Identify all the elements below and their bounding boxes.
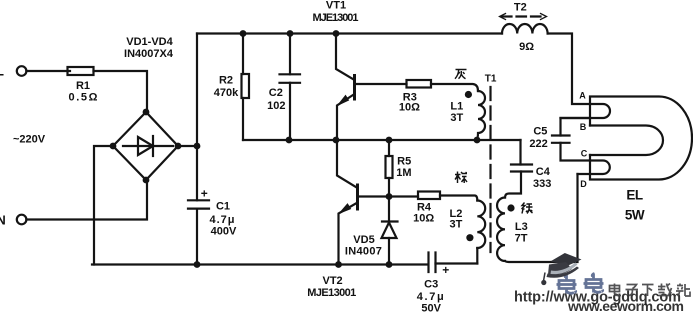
svg-text:222: 222 [529,138,547,150]
mid rail [243,139,521,141]
winding L2 [477,201,485,249]
svg-text:4.7μ: 4.7μ [210,214,235,226]
svg-text:EL: EL [626,188,643,203]
svg-text:B: B [580,122,587,132]
watermark cap gray swoosh [551,263,578,275]
watermark logo bug char 2 [584,274,604,293]
svg-text:1M: 1M [396,167,411,179]
lamp bottom filament [578,161,610,175]
VT2 emitter [339,203,358,265]
resistor R2 [242,74,250,98]
svg-text:470k: 470k [214,87,239,99]
watermark cap body [548,262,572,275]
wire R4 to L2 [440,196,477,201]
CJK glyph 绿 (green wire label) [522,203,533,214]
C5 bottom lead to C [561,143,591,161]
capacitor C5 plates [552,136,570,143]
VT2 emitter arrow [340,204,351,213]
resistor R3 [407,80,432,88]
capacitor C2 top lead [289,34,291,75]
wire bridge right to +V node [178,145,197,147]
capacitor C4 plates [511,165,532,172]
watermark text 电子下载站 [610,284,691,297]
svg-text:www.eeworm.com: www.eeworm.com [567,298,684,313]
watermark graduation cap board [551,253,582,266]
svg-text:+: + [201,187,208,201]
+V vertical upper [196,34,198,201]
winding L3 [497,198,505,262]
capacitor C1 plates [188,200,209,208]
CJK glyph 棕 (brown wire label) [455,172,467,184]
svg-text:C4: C4 [536,166,551,178]
terminal N [17,215,27,225]
lamp tube outline top leg [590,97,692,180]
VT1 emitter arrow [338,96,349,106]
VT1 base lead [355,83,407,85]
T2 core arrow right [541,14,547,20]
bridge internal diode line [123,145,173,147]
watermark [514,253,690,313]
svg-text:7T: 7T [515,233,528,245]
svg-text:L: L [0,64,4,79]
svg-text:R2: R2 [219,75,233,87]
svg-text:R1: R1 [76,80,90,92]
svg-text:400V: 400V [211,226,237,238]
C4 bottom lead to L3 [505,172,521,198]
glyph 电 [610,284,622,296]
bridge internal diode cathode bar [152,136,154,156]
C2 bottom lead [289,83,291,140]
VT2 base lead [358,195,389,197]
bridge rectifier VD1-VD4 diamond [113,112,178,180]
svg-text:C2: C2 [269,87,283,99]
svg-text:VT2: VT2 [323,275,343,287]
L2 bottom lead [476,248,478,264]
wire T2 to lamp A [548,34,590,105]
VT1 bar [353,76,356,100]
wire R3 to L1 [431,84,478,91]
svg-text:50V: 50V [421,303,441,313]
VD5 cathode bar [382,220,398,222]
top rail [197,32,502,34]
svg-text:L3: L3 [515,221,528,233]
svg-text:0.5Ω: 0.5Ω [69,92,98,104]
svg-text:MJE13001: MJE13001 [307,287,356,299]
svg-text:10Ω: 10Ω [413,213,434,225]
C1 bottom lead [196,209,198,265]
phase dot L3 [507,204,514,211]
svg-text:IN4007X4: IN4007X4 [124,48,174,60]
watermark tassel [544,273,546,282]
svg-text:C5: C5 [533,126,547,138]
diode VD5 top lead [388,197,390,223]
terminal L [17,66,27,76]
L3 bottom wire to D [505,174,578,262]
glyph 载 [658,284,672,296]
svg-text:IN4007: IN4007 [345,246,382,258]
phase dot L1 [465,91,472,98]
svg-text:R5: R5 [397,156,411,168]
phase dot L2 [466,234,473,241]
T2 core dashed line [502,15,544,17]
svg-text:102: 102 [267,100,285,112]
wire L to R1 [26,70,70,72]
svg-text:C1: C1 [216,201,230,213]
wire base node to R4 [389,195,419,197]
svg-text:10Ω: 10Ω [399,102,420,114]
T2 core arrow left [500,14,506,20]
glyph 站 [676,284,690,297]
resistor R2 lead top [242,34,244,75]
transistor VT1 collector [336,34,355,81]
capacitor C4 top lead from mid rail [519,140,521,165]
glyph 下 [642,285,654,297]
svg-text:9Ω: 9Ω [519,41,534,53]
svg-text:333: 333 [533,178,551,190]
resistor R4 [418,192,440,200]
R2 bottom lead [242,98,244,140]
VD5 triangle [382,223,397,239]
winding L1 [476,91,485,140]
bottom rail [92,263,428,265]
svg-text:C: C [581,149,588,159]
wire bridge left to bottom rail [94,146,113,265]
svg-text:MJE13001: MJE13001 [313,12,359,24]
watermark cap lower dark band [547,267,580,278]
svg-text:T1: T1 [485,74,497,85]
svg-text:3T: 3T [449,219,462,231]
svg-text:C3: C3 [424,279,438,291]
bridge internal diode triangle [138,137,153,155]
svg-text:VD1-VD4: VD1-VD4 [126,36,173,48]
transistor VT2 collector [337,140,358,188]
svg-text:N: N [0,213,6,228]
lamp inner slot [590,126,663,156]
wire R1 to bridge top [94,71,148,112]
T1 core dashed line [489,87,491,252]
svg-text:~220V: ~220V [13,134,46,146]
inductor T2 winding [502,24,548,34]
svg-text:VD5: VD5 [353,234,374,246]
capacitor C2 plates [280,74,301,83]
glyph 子 [626,285,639,296]
resistor R5 top lead [388,140,390,156]
svg-text:3T: 3T [450,112,463,124]
wire N to bridge bottom [26,180,147,220]
lamp top filament [561,104,611,118]
VT1 emitter [337,94,355,140]
resistor R5 [386,156,393,178]
R5 bottom lead [388,178,390,196]
CJK glyph 灰 (gray wire label) [455,70,467,79]
wire C3 to L2 [436,262,478,264]
VD5 bottom lead [388,238,390,265]
svg-text:L1: L1 [450,101,463,113]
svg-text:D: D [580,179,587,189]
svg-text:A: A [579,91,586,101]
svg-text:4.7μ: 4.7μ [417,291,444,303]
capacitor C5 top lead to B [561,118,591,136]
watermark logo bug char 1 [557,275,577,294]
svg-text:5W: 5W [625,208,645,223]
svg-text:T2: T2 [514,2,527,14]
VT2 bar [356,185,359,209]
capacitor C3 plates [429,253,436,273]
svg-text:VT1: VT1 [326,0,346,12]
resistor R1 [68,67,94,75]
svg-text:+: + [442,263,449,277]
